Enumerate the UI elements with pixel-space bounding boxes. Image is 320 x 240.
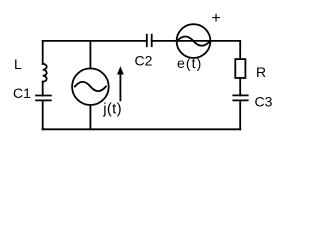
capacitor C2 right plate <box>151 35 153 47</box>
wire top right horizontal through e(t) <box>152 40 241 42</box>
current source sine wave <box>75 82 106 91</box>
wire left vertical lower <box>42 100 44 129</box>
capacitor C2 left plate <box>146 35 148 47</box>
capacitor C1 top plate <box>36 95 51 97</box>
capacitor C3 top plate <box>233 94 247 96</box>
wire bottom horizontal <box>43 128 241 130</box>
svg-text:R: R <box>256 64 266 80</box>
svg-text:C3: C3 <box>255 94 273 110</box>
wire top left horizontal <box>43 40 147 42</box>
wire middle branch lower <box>89 105 91 129</box>
voltage source sine wave <box>177 37 210 46</box>
svg-text:e(t): e(t) <box>177 55 202 71</box>
svg-text:+: + <box>211 10 220 27</box>
wire left vertical upper <box>42 41 44 64</box>
svg-text:j(t): j(t) <box>102 101 122 118</box>
resistor R box <box>235 59 245 78</box>
arrow stem for j(t) <box>119 75 121 101</box>
capacitor C3 bottom plate <box>233 99 247 101</box>
wire right vertical upper <box>239 41 241 59</box>
inductor L <box>43 64 47 82</box>
svg-text:L: L <box>14 56 22 72</box>
capacitor C1 bottom plate <box>36 99 51 101</box>
wire right vertical middle <box>239 78 241 95</box>
voltage source e(t) circle <box>177 24 211 58</box>
arrow head for j(t) <box>117 66 124 74</box>
wire left vertical middle <box>42 82 44 96</box>
svg-text:C1: C1 <box>13 85 31 101</box>
current source j(t) circle <box>72 68 109 105</box>
wire right vertical lower <box>239 100 241 129</box>
svg-text:C2: C2 <box>135 53 153 69</box>
wire middle branch upper <box>89 41 91 69</box>
